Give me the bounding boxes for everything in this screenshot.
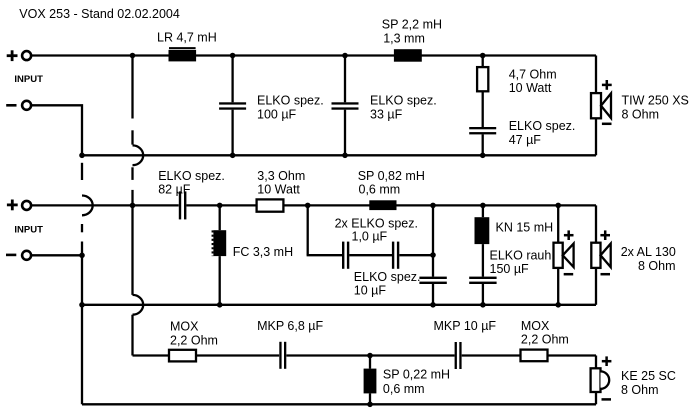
capacitor ELKO spez. 100 uF [219,56,324,156]
wire top return rail [82,154,596,156]
svg-text:MKP 10 µF: MKP 10 µF [434,319,497,333]
svg-text:150 µF: 150 µF [490,262,530,276]
capacitor 2x ELKO spez. 1,0 uF right [392,242,399,269]
capacitor ELKO spez. 10 uF [354,205,447,304]
wire 1uF branch horizontal [307,254,433,256]
svg-text:1,0 µF: 1,0 µF [352,230,388,244]
wire top minus lead [32,105,82,155]
capacitor MKP 6,8 uF [257,319,323,369]
svg-text:0,6 mm: 0,6 mm [383,382,425,396]
svg-text:ELKO spez.: ELKO spez. [370,93,437,107]
junction dots top return [79,153,485,159]
wire line A dashed with hop [82,163,93,256]
node INPUT label mid [14,224,43,235]
junction dots bottom [367,353,373,407]
wire line A lower [81,255,83,404]
node INPUT label top [14,74,43,85]
resistor MOX 2,2 Ohm left [169,320,218,362]
wire bottom feed rail [133,354,597,356]
inductor LR 4,7 mH [157,31,217,62]
svg-text:SP 2,2 mH: SP 2,2 mH [382,18,442,32]
resistor 3,3 Ohm 10 Watt [257,169,306,212]
inductor FC 3,3 mH [213,205,294,304]
svg-text:3,3 Ohm: 3,3 Ohm [257,169,305,183]
svg-text:4,7 Ohm: 4,7 Ohm [509,67,557,81]
svg-text:0,6 mm: 0,6 mm [359,183,401,197]
svg-text:8 Ohm: 8 Ohm [622,107,660,121]
speaker AL 130 right [591,205,676,304]
junction dots mid return [79,302,561,308]
svg-text:FC 3,3 mH: FC 3,3 mH [233,245,293,259]
wire mid return rail [82,304,596,306]
node - input top terminal [6,101,31,110]
junction dot 1uF line [430,252,436,258]
svg-text:MOX: MOX [521,319,550,333]
capacitor ELKO spez. 33 uF [332,56,437,156]
inductor SP 2,2 mH [382,18,442,62]
node + input top terminal [7,50,31,61]
svg-text:10 µF: 10 µF [354,284,387,298]
svg-text:10 Watt: 10 Watt [509,81,552,95]
resistor 4,7 Ohm 10 Watt [477,56,557,95]
svg-text:2,2 Ohm: 2,2 Ohm [170,333,218,347]
svg-text:ELKO spez.: ELKO spez. [509,119,576,133]
speaker AL 130 left [554,205,574,304]
svg-text:82 µF: 82 µF [158,183,191,197]
svg-text:INPUT: INPUT [14,224,43,235]
wire line B lower with hop [133,205,144,355]
wire bottom return rail [82,403,596,405]
svg-text:VOX 253 - Stand 02.02.2004: VOX 253 - Stand 02.02.2004 [19,7,180,21]
capacitor ELKO rauh 150 uF [469,244,551,305]
svg-text:MKP 6,8 µF: MKP 6,8 µF [257,319,323,333]
wire mid plus rail [32,204,596,206]
resistor MOX 2,2 Ohm right [521,319,569,361]
title [19,7,180,21]
wire mid minus lead [32,254,82,256]
svg-text:ELKO spez.: ELKO spez. [158,169,225,183]
svg-text:TIW 250 XS: TIW 250 XS [622,93,689,107]
svg-text:8 Ohm: 8 Ohm [638,259,676,273]
wire 1uF branch drop [307,205,309,255]
speaker TIW 250 XS [591,56,689,156]
node - input mid terminal [6,251,31,260]
svg-text:SP 0,22 mH: SP 0,22 mH [383,367,450,381]
svg-text:KE 25 SC: KE 25 SC [621,369,676,383]
inductor SP 0,82 mH [358,169,425,210]
svg-text:2,2 Ohm: 2,2 Ohm [521,333,569,347]
svg-text:47 µF: 47 µF [509,133,542,147]
svg-text:33 µF: 33 µF [370,107,403,121]
wire line B upper [133,56,144,206]
svg-text:KN 15 mH: KN 15 mH [496,220,554,234]
inductor KN 15 mH [475,205,554,244]
svg-text:ELKO rauh: ELKO rauh [490,249,552,263]
capacitor ELKO spez. 82 uF [158,169,225,219]
junction dot minus mid [79,253,85,259]
capacitor ELKO spez. 47 uF [469,91,575,155]
svg-text:2x ELKO spez.: 2x ELKO spez. [335,217,418,231]
junction dots top rail [130,53,486,59]
svg-text:100 µF: 100 µF [257,107,297,121]
svg-text:8 Ohm: 8 Ohm [621,383,659,397]
node + input mid terminal [7,200,31,211]
svg-text:10 Watt: 10 Watt [257,183,300,197]
capacitor MKP 10 uF [434,319,497,369]
svg-text:1,3 mm: 1,3 mm [383,31,425,45]
svg-text:INPUT: INPUT [14,74,43,85]
junction dots mid rail [130,203,561,209]
svg-text:ELKO spez.: ELKO spez. [354,270,421,284]
speaker KE 25 SC [591,356,676,405]
svg-text:2x AL 130: 2x AL 130 [621,245,676,259]
wire top plus rail [32,54,596,56]
svg-text:MOX: MOX [170,320,199,334]
svg-text:ELKO spez.: ELKO spez. [257,93,324,107]
svg-text:LR 4,7 mH: LR 4,7 mH [157,31,217,45]
inductor SP 0,22 mH [364,356,450,405]
svg-text:SP 0,82 mH: SP 0,82 mH [358,169,425,183]
capacitor 2x ELKO spez. 1,0 uF left [335,217,418,269]
